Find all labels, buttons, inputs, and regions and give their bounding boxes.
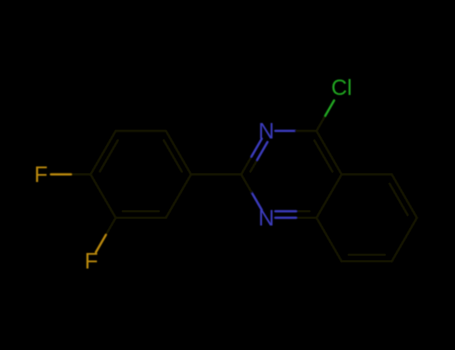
bond C2=N3 [241,139,267,175]
bond C1'-C2 [191,173,241,175]
bond C3'-C4' [91,131,118,175]
bond N3-C4 [275,130,316,132]
bond C5'-C6' [116,211,166,218]
bond C1'-C2' [164,131,191,175]
svg-text:N: N [258,119,274,144]
bond C6'-C1' [166,174,191,217]
bond C5'-F2 [96,218,116,252]
bond C2'-C3' [116,130,166,132]
svg-text:Cl: Cl [331,75,352,100]
bond C6-C7 [392,218,417,261]
bond N1-C2 [241,174,262,210]
bond C4'-F1 [51,173,91,175]
bond C4a-C8a [317,174,342,217]
bond C8-C8a [317,218,342,261]
bond C4-Cl [317,100,335,130]
bond C4=C4a [314,131,341,175]
bond C5=C6 [390,174,417,217]
bond C7=C8 [342,255,392,262]
bond C4'-C5' [91,174,116,217]
bond C4a-C5 [342,173,392,175]
svg-text:F: F [34,162,47,187]
svg-text:F: F [85,249,98,274]
svg-text:N: N [258,205,274,230]
bond C8a=N1 [275,211,316,218]
